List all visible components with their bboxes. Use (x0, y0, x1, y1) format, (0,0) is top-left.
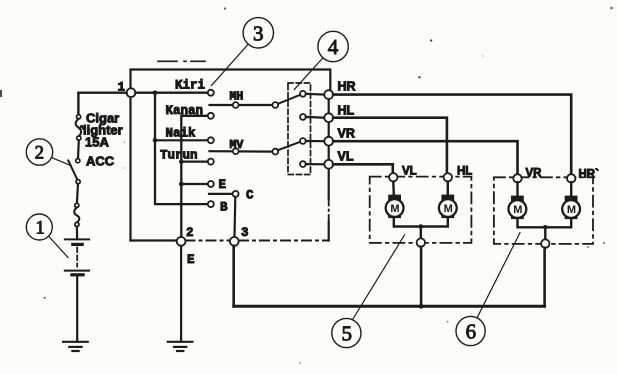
wire VR terminal to motor (516, 182, 518, 196)
wire junction to bottom node assembly 6 (544, 227, 546, 239)
svg-text:Turun: Turun (160, 149, 198, 163)
fuse F1 terminal top (77, 115, 81, 119)
wire vertical branch B (Kanan to node 2) (181, 116, 210, 237)
wire motors to common point assembly 5 (394, 218, 448, 226)
ground (battery negative) (63, 342, 88, 351)
switch S1 lower terminal (76, 180, 80, 184)
callout circle 6 (right mirror assembly) (456, 233, 520, 346)
junction assembly 5 (419, 224, 424, 229)
connector contact VR row (300, 138, 306, 144)
wire junction to bottom node assembly 5 (420, 227, 422, 239)
contact Turun (208, 159, 214, 165)
contact on MH wire (233, 102, 239, 108)
junction on feed wire (153, 90, 158, 95)
svg-text:M: M (513, 204, 522, 216)
switch arm MV wire (210, 150, 276, 153)
bottom node assembly 6 (541, 239, 549, 247)
terminal HR (324, 90, 333, 99)
svg-text:^: ^ (79, 124, 85, 134)
svg-text:MV: MV (230, 139, 244, 152)
junction branch B at E row (179, 182, 184, 187)
svg-text:15A: 15A (85, 135, 109, 150)
contact B (208, 201, 214, 207)
node 2 (terminal 2 of switch) (177, 237, 186, 246)
wire connector VR to terminal VR (306, 140, 325, 142)
svg-text:2: 2 (186, 226, 194, 240)
svg-text:M: M (444, 203, 453, 215)
fusible link element (74, 208, 79, 223)
svg-text:6: 6 (466, 320, 477, 344)
wire HR to right mirror motor (333, 95, 571, 174)
callout circle 2 (ACC switch) (26, 139, 71, 166)
svg-text:HR: HR (338, 80, 356, 94)
motor M VR (509, 196, 527, 220)
contact E (208, 181, 214, 187)
motor M HR (562, 196, 580, 220)
svg-text:C: C (246, 189, 254, 203)
wire HR terminal to motor (570, 182, 572, 196)
svg-text:5: 5 (342, 322, 353, 346)
contact C (233, 191, 239, 197)
contact Kiri (208, 90, 214, 96)
wire connector HL to terminal HL (306, 116, 325, 119)
terminal HL on assembly 5 (444, 173, 452, 181)
svg-text:VR: VR (338, 126, 355, 140)
wire link to battery (76, 227, 78, 239)
wire to E contact (181, 183, 208, 185)
svg-text:HL: HL (338, 103, 355, 117)
svg-text:Kiri: Kiri (175, 79, 205, 93)
svg-text:M: M (390, 203, 399, 215)
wire to Turun contact (181, 161, 208, 163)
value label Cigar lighter 15A (79, 111, 123, 150)
fusible link terminal bottom (75, 222, 79, 226)
callout circle 3 (control switch) (212, 18, 274, 86)
svg-text:E: E (219, 178, 227, 192)
switch S1 arm (open) (68, 161, 77, 181)
terminal VL (324, 160, 333, 169)
battery B1 (item 1) (65, 239, 89, 274)
callout circle 1 (battery) (26, 214, 68, 258)
connector contact VL row (300, 161, 306, 167)
bottom bus wire (234, 305, 545, 308)
svg-text:VR: VR (526, 168, 543, 180)
fuse F1 terminal bottom (77, 136, 81, 140)
junction bus at assembly 5 (419, 304, 424, 309)
svg-text:MH: MH (230, 91, 244, 104)
svg-text:2: 2 (35, 143, 44, 163)
terminal HR on assembly 6 (567, 174, 575, 182)
contact Naik (208, 137, 214, 143)
wire assembly 6 node to bus (543, 248, 546, 306)
connector contact HR row (300, 91, 306, 97)
wire switch to fusible link (77, 184, 78, 204)
terminal HL (324, 113, 333, 122)
junction branch A at Naik row (153, 138, 158, 143)
wire C row (209, 193, 233, 195)
switch arm MH diagonal (278, 95, 300, 104)
fuse F1 (cigar lighter 15A) element (76, 119, 81, 136)
wire VL to left mirror motor (333, 164, 393, 172)
connector contact HL row (300, 114, 306, 120)
svg-text:VL: VL (338, 150, 354, 164)
callout circle 4 (connector) (294, 31, 348, 89)
svg-text:4: 4 (328, 35, 339, 59)
contact on MV wire (233, 148, 239, 154)
contact Kanan (208, 113, 214, 119)
svg-text:HL: HL (457, 166, 472, 178)
switch enclosure (mirror control switch box) (131, 61, 331, 240)
wire between terminals on right edge (328, 95, 330, 165)
wire node 2 to ground E (180, 246, 182, 342)
svg-text:HR`: HR` (579, 169, 600, 181)
svg-text:3: 3 (241, 226, 249, 240)
ground E (168, 342, 193, 351)
svg-text:E: E (187, 253, 195, 267)
wire VL terminal to motor (392, 182, 395, 196)
svg-text:B: B (220, 201, 228, 215)
svg-text:3: 3 (253, 22, 264, 46)
switch arm MH wire (210, 104, 276, 106)
mirror assembly box (item 5) dashed (370, 177, 472, 243)
motor M VL (386, 195, 404, 219)
wire VR to right mirror motor (333, 141, 517, 173)
node 3 (terminal 3 of switch) (230, 237, 239, 246)
junction assembly 6 (543, 225, 548, 230)
wire feed node1 to Kiri contact (135, 91, 208, 93)
wire node1 to fuse branch (78, 93, 126, 115)
junction branch B at Turun row (179, 159, 184, 164)
wire node 3 to bottom bus (232, 246, 235, 306)
svg-text:Kanan: Kanan (166, 104, 204, 118)
wire motors to common point assembly 6 (518, 219, 572, 227)
switch S1 ACC terminal (76, 159, 80, 163)
callout circle 5 (left mirror assembly) (332, 235, 405, 348)
wire fuse to ACC switch (77, 140, 80, 159)
mirror assembly box (item 6) dashed (494, 177, 593, 244)
wire to Naik contact (155, 139, 209, 141)
terminal VR (324, 137, 333, 146)
wire battery to ground (76, 276, 78, 341)
fusible link terminal top (75, 203, 79, 207)
svg-text:Naik: Naik (166, 127, 197, 141)
wire connector HR to terminal HR (306, 93, 325, 96)
contact MH pivot end (272, 102, 278, 108)
terminal VR on assembly 6 (513, 174, 521, 182)
node 1 (terminal 1 of switch) (127, 88, 136, 97)
svg-text:M: M (567, 204, 576, 216)
wire vertical branch A (155, 93, 209, 204)
wire C to node 3 (233, 197, 236, 237)
svg-text:VL: VL (402, 166, 417, 178)
switch arm MV diagonal (278, 142, 300, 150)
bottom node assembly 5 (417, 238, 425, 246)
wire assembly 5 node to bus (420, 247, 423, 306)
contact MV pivot end (272, 149, 278, 155)
connector block (item 4) dashed box (288, 83, 311, 175)
wire connector VL to terminal VL (306, 163, 325, 165)
svg-text:1: 1 (36, 218, 45, 238)
wire HL to left mirror motor (333, 118, 447, 172)
motor M HL (439, 195, 457, 219)
wire HL terminal to motor (447, 182, 449, 196)
terminal VL on assembly 5 (389, 173, 397, 181)
svg-text:ACC: ACC (86, 154, 115, 169)
